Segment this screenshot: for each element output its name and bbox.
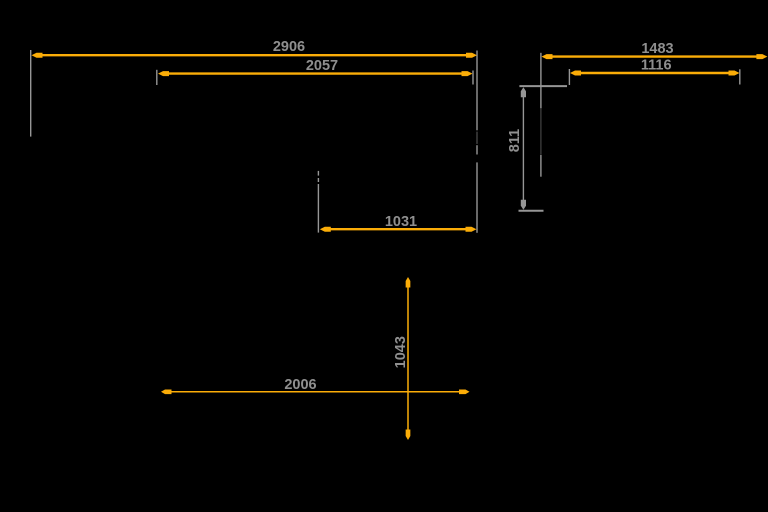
- svg-text:2906: 2906: [273, 39, 305, 55]
- svg-text:1483: 1483: [641, 41, 673, 57]
- svg-text:2057: 2057: [306, 58, 338, 74]
- svg-text:811: 811: [507, 129, 523, 152]
- svg-text:1043: 1043: [393, 336, 409, 368]
- svg-text:1031: 1031: [385, 214, 417, 230]
- svg-text:2006: 2006: [284, 377, 316, 393]
- svg-text:1116: 1116: [641, 58, 672, 74]
